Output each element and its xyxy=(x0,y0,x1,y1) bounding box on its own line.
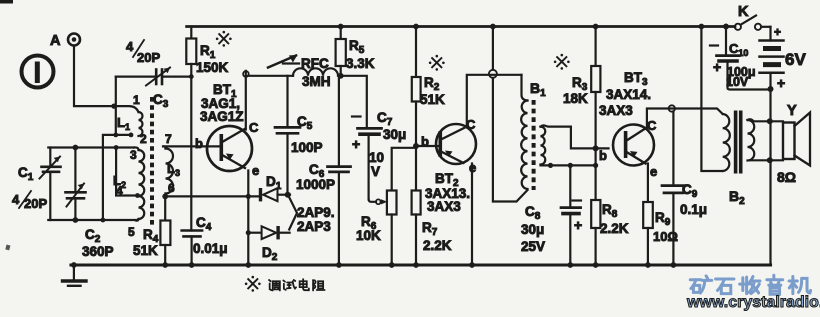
label asterisk R2 xyxy=(429,55,445,71)
svg-text:10K: 10K xyxy=(356,228,381,243)
svg-text:3MH: 3MH xyxy=(302,74,331,89)
ground xyxy=(63,265,87,286)
svg-text:+: + xyxy=(713,59,721,75)
wire bottom ground rail xyxy=(71,262,771,268)
wire C3 left drop xyxy=(113,77,118,138)
inductor L2 xyxy=(113,147,144,239)
svg-text:25V: 25V xyxy=(521,239,545,254)
diode D1 xyxy=(259,174,290,201)
svg-text:51K: 51K xyxy=(133,243,158,258)
svg-text:0.1μ: 0.1μ xyxy=(680,202,707,217)
svg-text:100P: 100P xyxy=(291,140,323,155)
wire BT3 collector xyxy=(647,105,723,127)
svg-text:2.2K: 2.2K xyxy=(423,238,452,253)
resistor R3 xyxy=(563,27,600,166)
wire dogleg xyxy=(289,197,297,230)
svg-text:1000P: 1000P xyxy=(296,177,335,192)
svg-text:3AX3: 3AX3 xyxy=(599,103,633,118)
svg-text:3AX14.: 3AX14. xyxy=(606,87,651,102)
speaker Y xyxy=(777,103,810,185)
svg-text:K: K xyxy=(738,4,749,20)
svg-text:e: e xyxy=(252,163,259,178)
svg-text:18K: 18K xyxy=(563,91,588,106)
switch K xyxy=(735,4,771,30)
svg-text:RFC: RFC xyxy=(301,56,329,71)
trimmer capacitor C3 xyxy=(116,39,192,110)
wire B1 secondary bottom xyxy=(541,163,599,168)
label asterisk R3 xyxy=(554,54,570,70)
wire top power rail xyxy=(187,24,735,30)
svg-text:30μ: 30μ xyxy=(383,127,406,142)
label asterisk R1 xyxy=(216,31,232,47)
capacitor C8 xyxy=(521,165,582,265)
battery 6V xyxy=(760,25,807,91)
transistor BT2 xyxy=(421,117,476,214)
svg-text:10V: 10V xyxy=(726,75,749,89)
wire speaker bottom xyxy=(750,157,783,163)
wire B1 feed xyxy=(489,27,528,202)
potentiometer R6 xyxy=(356,148,414,265)
svg-text:2AP3: 2AP3 xyxy=(297,219,331,234)
diode D2 xyxy=(246,226,290,263)
resistor R5 xyxy=(336,27,375,76)
svg-text:2.2K: 2.2K xyxy=(600,221,629,236)
svg-text:Y: Y xyxy=(787,103,797,119)
wire detector output xyxy=(338,73,367,128)
wire tank bottom rail xyxy=(48,217,136,223)
inductor L3 xyxy=(163,132,180,196)
note tuning resistor xyxy=(245,276,325,292)
wire BT2 base xyxy=(416,145,439,147)
wire BT1 emitter xyxy=(247,171,249,266)
svg-text:b: b xyxy=(195,136,203,151)
svg-text:3AG1Z: 3AG1Z xyxy=(200,109,244,124)
svg-text:b: b xyxy=(421,134,429,149)
transformer B1 xyxy=(521,75,546,190)
svg-text:+: + xyxy=(774,25,781,39)
svg-text:+: + xyxy=(574,217,582,233)
svg-text:8Ω: 8Ω xyxy=(777,169,796,185)
resistor R9 xyxy=(643,164,678,266)
capacitor C1 xyxy=(12,148,61,221)
svg-text:3.3K: 3.3K xyxy=(346,56,375,71)
svg-text:C: C xyxy=(249,120,259,135)
resistor R2 xyxy=(412,27,445,150)
ferrite core xyxy=(150,97,154,227)
svg-text:2AP9.: 2AP9. xyxy=(297,205,335,220)
svg-text:3AX3: 3AX3 xyxy=(427,199,461,214)
transistor BT3 xyxy=(599,70,657,179)
resistor R8 xyxy=(591,165,629,265)
node detector junction xyxy=(285,192,291,198)
svg-text:0.01μ: 0.01μ xyxy=(193,241,228,256)
transistor BT1 xyxy=(195,82,259,178)
svg-text:30μ: 30μ xyxy=(521,222,544,237)
svg-text:6V: 6V xyxy=(785,50,806,69)
capacitor C5 xyxy=(275,76,323,195)
svg-text:www.crystalradio.cn: www.crystalradio.cn xyxy=(686,294,820,311)
antenna terminal A xyxy=(50,33,80,49)
svg-text:6: 6 xyxy=(168,181,175,195)
capacitor C4 xyxy=(182,215,228,265)
node detector line xyxy=(162,194,258,200)
label diode types xyxy=(297,205,335,234)
svg-text:3: 3 xyxy=(130,148,137,162)
capacitor C7 xyxy=(352,110,406,200)
svg-text:10: 10 xyxy=(369,150,384,165)
rf choke RFC xyxy=(268,55,338,89)
capacitor C2 xyxy=(66,148,114,260)
svg-text:2: 2 xyxy=(140,132,147,146)
transformer B2 xyxy=(723,111,755,208)
wire B1 secondary top to BT3 base xyxy=(541,125,609,151)
inductor L1 xyxy=(117,93,147,146)
svg-text:+: + xyxy=(777,75,785,91)
svg-text:150K: 150K xyxy=(196,60,229,75)
svg-text:51K: 51K xyxy=(420,92,445,107)
svg-text:b: b xyxy=(599,148,607,163)
watermark crystalradio xyxy=(686,275,820,311)
svg-text:5: 5 xyxy=(128,225,135,239)
svg-text:20P: 20P xyxy=(137,50,160,65)
capacitor C6 xyxy=(296,76,351,265)
logo circled 1 xyxy=(22,56,54,88)
svg-text:10Ω: 10Ω xyxy=(653,229,678,244)
wire L2 pin4 tap xyxy=(116,148,140,198)
wire antenna to L1 pin1 xyxy=(74,46,139,112)
wire B2 feed xyxy=(701,27,722,172)
wire BT2 emitter xyxy=(471,164,473,266)
svg-text:360P: 360P xyxy=(82,244,114,259)
capacitor C10 xyxy=(710,24,771,90)
svg-text:4: 4 xyxy=(12,192,20,207)
svg-text:e: e xyxy=(650,164,657,179)
svg-text:+: + xyxy=(352,136,360,152)
wire speaker top xyxy=(748,118,784,124)
capacitor C9 xyxy=(662,112,707,266)
svg-text:V: V xyxy=(371,164,380,179)
wire tank top rail xyxy=(48,145,134,151)
resistor R7 xyxy=(412,146,452,265)
wire BT1 base xyxy=(164,145,220,147)
wire BT2 collector xyxy=(467,75,522,128)
svg-text:7: 7 xyxy=(165,132,172,146)
svg-text:1: 1 xyxy=(133,93,140,107)
resistor R1 xyxy=(186,27,228,231)
wire battery negative column xyxy=(768,86,774,265)
wire BT1 collector xyxy=(243,71,293,130)
resistor R4 xyxy=(133,196,170,265)
wire L1 pin2 xyxy=(103,133,134,221)
svg-text:4: 4 xyxy=(126,39,134,54)
svg-text:A: A xyxy=(50,33,61,49)
svg-text:C: C xyxy=(647,118,657,133)
corner mark xyxy=(0,0,13,250)
svg-text:20P: 20P xyxy=(24,196,47,211)
